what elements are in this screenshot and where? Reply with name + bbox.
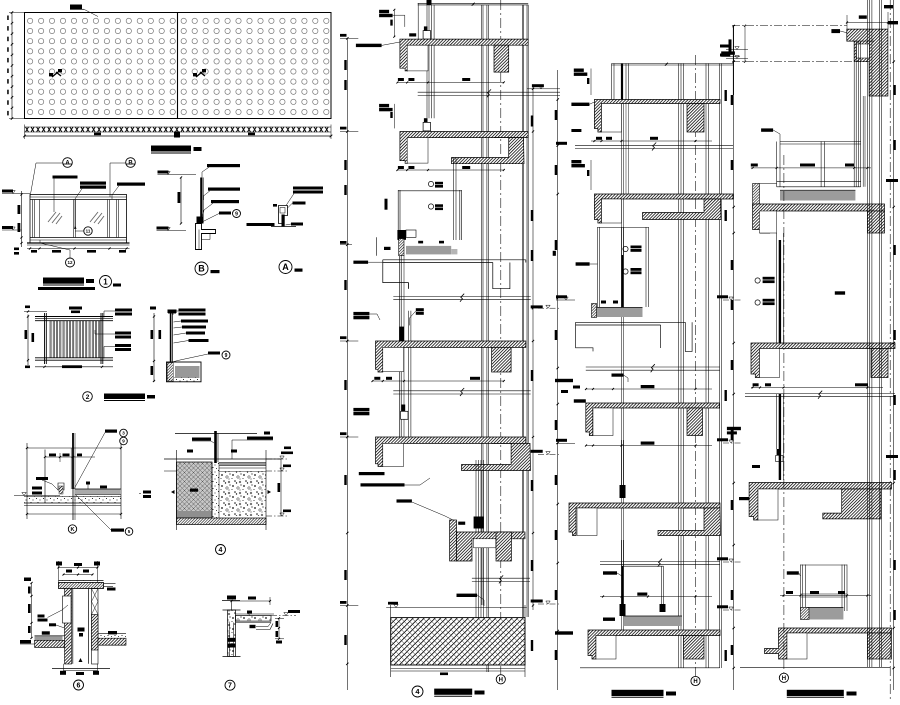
detail 3 floor slab gray	[75, 489, 121, 495]
strip3 floor1 right drop	[867, 211, 884, 233]
strip3 gray sill roof	[780, 190, 855, 200]
strip3 5050 label	[761, 128, 773, 131]
gap1 extra rotated blobs	[531, 250, 533, 261]
railing section cap	[168, 310, 177, 314]
strip2 window centre mullion bar	[621, 255, 623, 307]
strip1 floor4 slab	[376, 437, 526, 467]
strip1 break line 1	[418, 91, 560, 93]
detail 1 leader label right	[117, 183, 145, 186]
detail 3 left level line	[14, 495, 60, 497]
strip1 balcony door head	[397, 230, 406, 240]
strip3 inner wall face line	[862, 96, 864, 187]
strip2-3 gap level marks	[717, 295, 728, 298]
strip2 grid bubble H	[691, 676, 700, 685]
strip3 window 2 frames	[800, 565, 802, 612]
strip1 floor1 right drop	[494, 45, 509, 72]
detail 4 right stipple block	[219, 462, 266, 464]
detail 1 bottom dimension	[27, 248, 130, 250]
strip1 floor3 slab	[376, 341, 526, 372]
svg-text:9: 9	[225, 353, 228, 359]
svg-text:H: H	[782, 676, 786, 682]
svg-text:K: K	[71, 527, 75, 533]
section B circle leader	[219, 212, 231, 215]
strip2 grid line	[695, 55, 697, 676]
detail 6 right floor	[98, 634, 126, 639]
detail 3 left step labels	[32, 487, 42, 490]
strip1 break line 4	[472, 577, 530, 579]
strip3 bottom line	[740, 666, 890, 668]
strip1 title	[412, 686, 423, 697]
strip2 window 2 right jamb	[660, 566, 662, 611]
detail 6 bottom	[52, 668, 110, 670]
detail 4 middle strip	[212, 462, 219, 518]
strip2 floor5 slab	[569, 503, 720, 536]
panel title	[151, 146, 191, 152]
strip1 break line 3	[393, 390, 530, 392]
detail 7 wall bottom	[228, 638, 236, 642]
strip1 floor2 slab	[400, 132, 528, 164]
strip1 floor1 dim row	[397, 81, 503, 83]
strip2 dim row 3	[600, 596, 712, 598]
strip2 floor4 slab	[586, 403, 720, 436]
strip2 floor2 right step	[643, 199, 722, 220]
strip1 break line 2	[393, 296, 530, 298]
strip3 grid line	[783, 155, 785, 673]
svg-text:2: 2	[86, 394, 90, 401]
strip1 floor2 dim row	[397, 169, 503, 171]
panel break mark right	[196, 72, 205, 77]
strip1 circled labels pair 2	[428, 204, 433, 209]
strip1 level mark floor3	[340, 336, 347, 339]
strip2 dim row 2	[586, 445, 712, 447]
strip2 floor4 dim row	[586, 388, 712, 390]
section B top leader	[207, 164, 240, 167]
strip3 floor1 slab	[753, 204, 885, 233]
detail 7 title circle	[225, 680, 235, 690]
detail 1 leader label glass	[53, 176, 78, 179]
strip1 floor3 white slab	[383, 260, 526, 289]
strip3 window verticals	[853, 41, 855, 187]
strip1 entry slab	[450, 520, 457, 561]
strip3 floor3 left labels	[727, 427, 741, 430]
detail 3 circled K	[68, 525, 76, 533]
detail 3 bottom-right leader	[111, 529, 124, 532]
section B glass bar	[200, 178, 202, 224]
detail 7 right dim	[278, 618, 280, 639]
strip2 window frame	[597, 227, 599, 307]
strip1 left step floor3	[407, 283, 409, 289]
strip1 circled labels pair 1	[428, 181, 433, 186]
strip1 level right 2	[531, 305, 543, 308]
strip1 top edge lines	[418, 2, 529, 4]
strip2 floor6 slab	[588, 630, 720, 659]
section B title	[195, 262, 208, 275]
strip1 floor1 interior notch	[407, 45, 428, 71]
strip1 window frame top verticals	[426, 5, 428, 118]
strip3 floor2 right block	[871, 349, 888, 378]
strip2 top edge line	[612, 63, 734, 65]
strip1 floor3 right drop	[492, 347, 512, 372]
strip3 far right dim	[893, 0, 895, 690]
gap2 extra rotated blobs	[725, 90, 727, 101]
strip3 roof level lines	[732, 25, 847, 27]
railing bottom dimension	[35, 366, 113, 368]
section B sill profile	[196, 224, 216, 250]
strip3 roof level marks	[720, 45, 730, 48]
railing title note	[69, 307, 82, 310]
panel break mark left	[52, 72, 61, 77]
detail 7 labels	[247, 611, 252, 614]
strip2 gray sill 2	[624, 616, 683, 626]
strip1 level mark ground	[340, 601, 347, 604]
detail 4 left crosshatch block	[177, 462, 213, 511]
svg-text:7: 7	[228, 683, 232, 690]
strip3 floor4 slab	[765, 628, 892, 659]
svg-text:H: H	[693, 679, 697, 685]
detail 3 outer dimension box	[27, 447, 121, 449]
strip1 level mark floor1	[340, 34, 347, 37]
railing posts	[44, 313, 46, 364]
section A profile	[279, 206, 288, 224]
strip1 window floor2	[397, 190, 399, 240]
strip3 grid bubble H	[779, 673, 788, 682]
detail 4 level lines right	[266, 458, 288, 460]
strip3 left dim line	[733, 26, 735, 690]
strip2 floor3 white slab	[576, 322, 693, 351]
strip3 window jamb thick	[779, 240, 781, 343]
detail 4 bottom hatch band	[177, 518, 267, 525]
detail 3 speckle band	[24, 497, 121, 504]
strip3 floor2 dim row	[751, 387, 883, 389]
svg-text:H: H	[499, 677, 503, 683]
detail 1 section mark A	[63, 158, 73, 168]
panel perforation grid	[27, 18, 328, 114]
strip2 floor6 left leader	[555, 631, 573, 634]
railing bottom rail	[35, 357, 113, 359]
strip1 floor4 leader labels	[353, 408, 369, 411]
strip2 level left 1	[556, 142, 567, 145]
detail 6 column core	[72, 589, 74, 664]
svg-text:A: A	[282, 262, 289, 272]
railing balusters	[50, 321, 100, 358]
detail 7 slab	[236, 616, 272, 622]
strip3 floor4 right block	[867, 633, 891, 659]
strip3 floor3 right big block	[823, 489, 881, 519]
strip3 floor2 slab	[751, 343, 895, 378]
section B lower leader	[211, 200, 239, 203]
strip1 foundation block	[391, 618, 525, 665]
detail 1 glass pane marks	[48, 212, 104, 224]
strip3 window bottom	[777, 181, 861, 183]
strip2 floor4 right drop	[687, 408, 703, 436]
strip2 level left sill	[556, 295, 567, 298]
strip1 level mark floor4	[340, 432, 347, 435]
strip2 8050 label	[576, 262, 590, 265]
svg-text:1: 1	[103, 277, 108, 286]
detail 6 left floor	[35, 636, 63, 641]
strip3 right level marks	[886, 179, 898, 182]
strip2 door jamb bar	[621, 64, 623, 100]
detail 1 section mark B	[126, 158, 136, 168]
detail 6 left dim	[31, 583, 33, 638]
strip1 grid bubble H	[496, 675, 505, 684]
railing left dimension	[27, 315, 29, 366]
detail 3 top dim	[45, 456, 95, 458]
strip3 parapet height dim	[744, 26, 746, 62]
strip1 floor3 leader labels	[353, 312, 369, 315]
detail 3 centre post	[72, 433, 74, 489]
strip2 title	[612, 690, 664, 696]
strip2 frame verticals continuous	[621, 100, 623, 631]
detail 1 window elevation frame	[30, 195, 127, 244]
strip3 break line 1	[745, 393, 895, 395]
detail 7 top dim	[232, 600, 271, 602]
railing section base	[167, 362, 202, 382]
strip3 4950 label	[835, 291, 845, 294]
strip3 right verticals	[866, 0, 868, 667]
detail 6 top dims	[59, 567, 98, 569]
strip1 floor1 slab	[400, 39, 528, 71]
detail 1 inner circle label	[84, 227, 92, 235]
strip2 circled labels pair 1	[623, 246, 628, 251]
strip3 gray sill 2	[807, 608, 843, 620]
strip3 5050 label 2	[787, 571, 799, 574]
railing top rail	[35, 316, 113, 318]
panel left dimension chain	[11, 13, 13, 119]
svg-text:9: 9	[235, 211, 238, 217]
detail 1 leader label mid	[80, 182, 106, 185]
strip3 floor3 slab	[749, 483, 891, 521]
strip1 grid line	[500, 0, 502, 675]
strip1 door frame floor5	[475, 460, 477, 618]
strip1 floor4 leaders below	[359, 472, 385, 475]
section A labels	[293, 187, 323, 190]
strip1 level mark sill	[340, 241, 347, 244]
strip2 break line 2	[586, 366, 720, 368]
strip2 floor1 dim row	[591, 140, 712, 142]
svg-text:6: 6	[77, 683, 81, 690]
strip1 level mark floor2	[340, 127, 347, 130]
detail 6 labels	[42, 631, 50, 634]
strip1 floor4 window sill	[402, 405, 406, 412]
strip2 floor2 slab	[594, 194, 733, 223]
strip2 8050 label 2	[603, 571, 617, 574]
svg-text:B: B	[198, 264, 205, 274]
strip1 level right 1	[532, 84, 544, 87]
detail 1 bottom circle label	[66, 258, 75, 267]
detail 7 top ticks	[227, 596, 236, 600]
strip2 floor5 right step	[658, 508, 721, 536]
strip1 floor2 leader labels	[379, 104, 389, 107]
railing section post	[170, 313, 172, 362]
strip2 left dim line	[557, 70, 559, 690]
detail 4 post	[214, 431, 217, 463]
strip1 left dim line	[346, 38, 348, 690]
detail 2 title	[83, 392, 93, 402]
detail 4 ground line	[164, 458, 281, 460]
detail 6 cap	[59, 583, 104, 589]
strip2 window sill 2	[621, 540, 623, 616]
strip2 break line 1	[575, 144, 733, 146]
detail 6 title circle	[74, 680, 84, 690]
strip1 window sill block floor1	[424, 26, 428, 30]
strip1 floor3 dim row	[373, 380, 504, 382]
strip2 6019 label	[574, 399, 586, 402]
detail 1 title	[43, 278, 84, 284]
strip3 window transom	[780, 141, 861, 143]
strip2 floor1 right drop	[687, 104, 704, 133]
strip2 window frame 2	[621, 440, 623, 498]
svg-text:11: 11	[86, 229, 91, 234]
strip2 top right dim	[732, 25, 734, 95]
perforated panel label	[70, 5, 82, 10]
svg-text:4: 4	[219, 547, 223, 554]
detail 7 wall	[223, 609, 241, 611]
strip1 entry leader	[457, 594, 478, 597]
detail 4 post label	[192, 438, 211, 441]
strip1 gray window sill	[406, 246, 451, 255]
panel centre divider	[177, 13, 179, 119]
railing section vertical dim	[153, 313, 155, 382]
detail 4 right label	[247, 437, 273, 440]
section B mid leader	[208, 188, 240, 191]
strip3 dim row 2	[780, 591, 871, 593]
strip3 window 2 transom	[801, 593, 848, 595]
detail 7 level line	[271, 615, 296, 617]
strip3 parapet label	[831, 29, 840, 33]
strip2 top leader labels	[574, 69, 584, 72]
strip1 window frame floor3	[398, 256, 400, 437]
strip3 circled labels pair 1	[755, 278, 760, 283]
detail 4 top rail line	[175, 433, 257, 435]
detail 6 right wall	[92, 589, 99, 665]
strip3 dim row window	[751, 167, 871, 169]
svg-text:12: 12	[67, 260, 73, 265]
detail 4 title circle	[216, 545, 226, 555]
strip3 left wall step	[753, 184, 760, 208]
strip2 circled labels pair 2	[623, 269, 628, 274]
strip1 floor2 right drop L	[452, 138, 525, 164]
strip2 long verticals	[611, 64, 613, 100]
strip2 gray sill	[597, 308, 643, 318]
section A title	[279, 261, 292, 274]
strip3 parapet top dim	[847, 22, 888, 24]
section B vertical dim	[180, 178, 182, 224]
strip1 long verticals	[417, 3, 419, 39]
strip2 floor2 leaders	[571, 160, 581, 163]
railing leader labels	[115, 309, 132, 312]
strip1 floor1 leader	[356, 44, 382, 47]
perforated panel frame	[25, 13, 332, 119]
strip1 top-left leader labels	[379, 10, 389, 13]
strip2 outer wall face	[719, 64, 721, 669]
strip3 circled labels pair 2	[755, 300, 760, 305]
strip3 window sill bits	[777, 449, 781, 455]
strip2 floor3 labels	[612, 374, 624, 377]
strip2 floor1 slab	[594, 100, 720, 133]
detail 3 top-right leader	[105, 430, 117, 433]
detail 3 right small text	[143, 491, 151, 494]
strip2 bottom line	[580, 667, 720, 669]
detail 1 sill plate	[27, 242, 130, 244]
strip1 window label leader	[416, 308, 424, 311]
railing section labels	[179, 309, 206, 312]
strip1 floor4 right drop L	[462, 443, 531, 470]
strip2 window 2 centre bar	[621, 566, 623, 611]
strip1 entry right block	[496, 532, 511, 561]
detail 4 witness lines	[176, 450, 178, 530]
detail 1 left dimension	[21, 191, 23, 247]
strip2 floor6 right drop	[684, 636, 705, 660]
strip2 break line 3	[600, 561, 720, 563]
strip2 floor1 leader	[571, 103, 589, 106]
strip3 right dashed grid	[889, 0, 891, 700]
strip1 foundation witness lines	[390, 605, 392, 677]
detail 6 left wall	[65, 589, 72, 665]
strip1 foundation base band	[391, 668, 525, 670]
strip1 dim 750 label	[397, 499, 412, 502]
strip1 floor2 window sill	[424, 118, 428, 122]
panel bottom scale bar	[25, 135, 332, 137]
strip1 right dim line	[532, 85, 534, 610]
strip2 level left 2	[556, 439, 567, 442]
detail 4 right dim	[280, 459, 282, 516]
detail 1 mullions	[32, 200, 34, 238]
strip1 sill left hatch	[399, 239, 404, 256]
strip3 parapet	[847, 29, 888, 96]
strip2 6019 label 2	[603, 618, 615, 621]
strip3 title	[787, 690, 844, 696]
strip1 ground level line	[386, 607, 527, 609]
detail 3 inner verticals	[44, 450, 46, 503]
